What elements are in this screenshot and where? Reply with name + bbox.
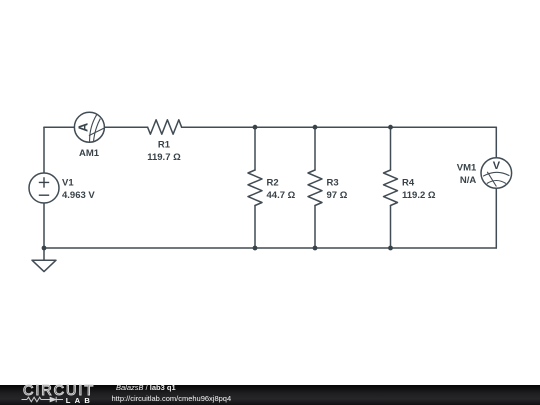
svg-text:N/A: N/A: [460, 175, 477, 186]
svg-text:R4: R4: [402, 178, 415, 189]
svg-text:R2: R2: [267, 178, 279, 189]
svg-text:A: A: [77, 123, 91, 132]
svg-text:119.7 Ω: 119.7 Ω: [147, 152, 181, 163]
svg-text:97 Ω: 97 Ω: [327, 190, 348, 201]
svg-text:V: V: [493, 160, 501, 172]
svg-text:R1: R1: [158, 140, 171, 151]
svg-text:4.963 V: 4.963 V: [62, 190, 95, 201]
svg-text:119.2 Ω: 119.2 Ω: [402, 190, 436, 201]
svg-text:VM1: VM1: [457, 163, 477, 174]
svg-text:44.7 Ω: 44.7 Ω: [267, 190, 296, 201]
svg-text:AM1: AM1: [79, 148, 100, 159]
svg-text:R3: R3: [327, 178, 339, 189]
svg-text:V1: V1: [62, 178, 74, 189]
